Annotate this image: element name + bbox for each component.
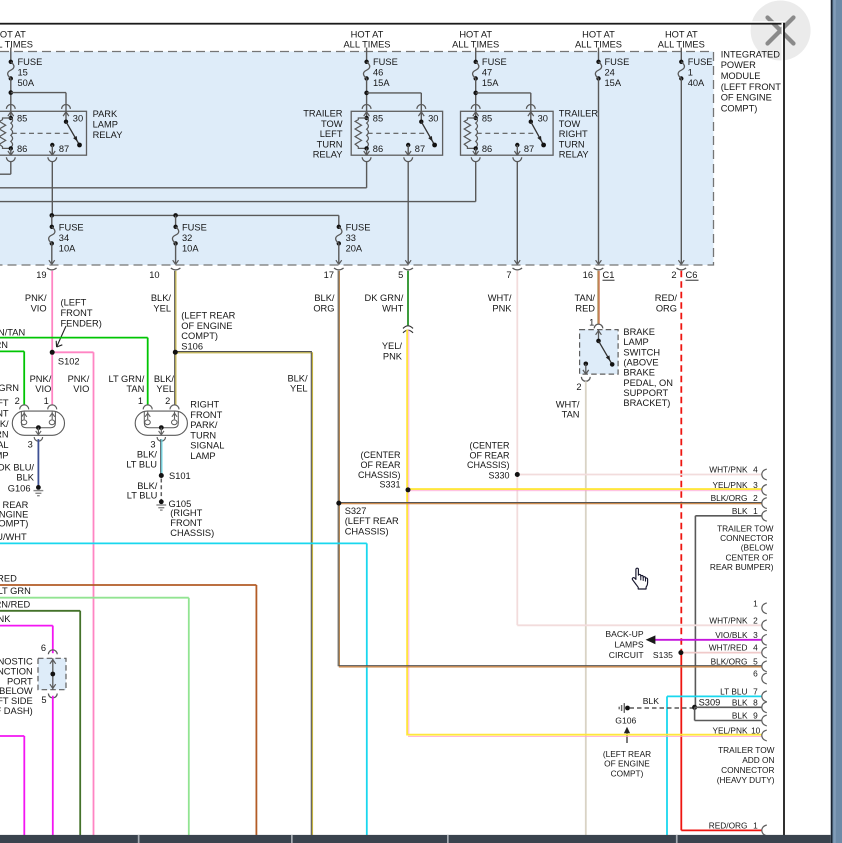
svg-text:PORT: PORT: [7, 676, 33, 686]
diagnostic junction port box: [38, 658, 66, 689]
IPM output pin at x=175.6: [173, 260, 176, 264]
brake lamp switch box: [580, 330, 619, 375]
wire fuse15 to park relay: [10, 79, 12, 105]
wire PNK to DJP pin6: [0, 625, 53, 627]
svg-text:1: 1: [44, 396, 49, 406]
wire YEL/PNK down: [406, 330, 408, 736]
svg-text:CHASSIS): CHASSIS): [345, 526, 389, 536]
svg-text:POWER: POWER: [721, 60, 756, 70]
svg-text:85: 85: [17, 114, 27, 124]
svg-text:OF ENGINE: OF ENGINE: [604, 759, 650, 769]
svg-text:YEL/PNK: YEL/PNK: [712, 726, 748, 736]
svg-text:FUSE: FUSE: [688, 57, 713, 67]
wire park relay 86 exit left: [10, 162, 12, 175]
svg-text:RED: RED: [575, 303, 595, 313]
svg-text:(LEFT REAR: (LEFT REAR: [181, 311, 235, 321]
svg-text:BLK/ORG: BLK/ORG: [711, 493, 748, 503]
svg-text:S331: S331: [379, 480, 400, 490]
ground G106 left: [36, 485, 41, 490]
IPM output pin at x=517.3: [514, 260, 517, 264]
wire BLK/YEL down from S106: [310, 352, 312, 836]
svg-text:FRONT: FRONT: [0, 408, 9, 418]
svg-text:BLK/ORG: BLK/ORG: [711, 656, 748, 666]
svg-text:46: 46: [373, 67, 383, 77]
svg-text:TURN: TURN: [559, 139, 585, 149]
svg-text:FUSE: FUSE: [373, 57, 398, 67]
splice S101: [159, 473, 164, 478]
svg-text:HOT AT: HOT AT: [0, 30, 26, 40]
wire YEL/PNK pin10 row: [408, 734, 762, 736]
svg-text:4: 4: [753, 643, 758, 653]
integrated power module shaded box: [0, 52, 714, 266]
fuse 15 50A: [10, 48, 12, 62]
svg-text:BLK/: BLK/: [154, 374, 175, 384]
svg-text:S102: S102: [58, 357, 80, 367]
svg-text:(BELOW: (BELOW: [741, 543, 774, 553]
svg-text:PNK/: PNK/: [68, 374, 90, 384]
svg-text:COMPT): COMPT): [611, 768, 644, 778]
svg-text:LEFT SIDE: LEFT SIDE: [0, 696, 33, 706]
svg-text:30: 30: [428, 114, 438, 124]
wire BLK pin1 trailer tow connector: [695, 515, 761, 517]
svg-text:TAN: TAN: [562, 410, 580, 420]
bus L1 to TT-left 86: [0, 187, 367, 189]
svg-text:TURN: TURN: [190, 430, 216, 440]
svg-text:LT GRN/: LT GRN/: [108, 374, 144, 384]
svg-text:32: 32: [182, 233, 192, 243]
svg-text:1: 1: [753, 820, 758, 830]
svg-text:(CENTER: (CENTER: [361, 450, 401, 460]
svg-text:YEL: YEL: [156, 384, 174, 394]
svg-text:86: 86: [373, 144, 383, 154]
svg-text:TRAILER: TRAILER: [303, 109, 343, 119]
svg-text:WHT/PNK: WHT/PNK: [709, 615, 748, 625]
svg-text:PNK: PNK: [492, 303, 512, 313]
svg-text:CHASSIS): CHASSIS): [467, 460, 510, 470]
svg-text:BRAKE: BRAKE: [623, 327, 655, 337]
svg-text:WHT: WHT: [382, 303, 403, 313]
page border right: [782, 23, 784, 835]
svg-text:BRACKET): BRACKET): [623, 398, 670, 408]
svg-text:15: 15: [18, 67, 28, 77]
svg-text:DK GRN/: DK GRN/: [365, 293, 404, 303]
svg-text:PARK/: PARK/: [0, 419, 9, 429]
svg-text:FUSE: FUSE: [182, 223, 207, 233]
splice S102: [52, 351, 93, 353]
svg-text:BLK/: BLK/: [151, 293, 172, 303]
wire BLK/LT BLU right lamp pin3: [160, 439, 162, 475]
svg-text:SUPPORT: SUPPORT: [623, 388, 668, 398]
svg-text:SIGNAL: SIGNAL: [0, 440, 9, 450]
svg-text:1: 1: [138, 396, 143, 406]
svg-text:3: 3: [150, 440, 155, 450]
svg-text:YEL: YEL: [290, 384, 308, 394]
RED/ORG pin1 bottom terminal: [762, 825, 767, 836]
svg-text:20A: 20A: [346, 243, 363, 253]
svg-text:19: 19: [36, 270, 46, 280]
svg-text:HOT AT: HOT AT: [665, 30, 698, 40]
right front park/turn signal lamp body: [135, 411, 187, 435]
svg-text:S135: S135: [653, 650, 673, 660]
svg-text:RED/ORG: RED/ORG: [709, 820, 748, 830]
svg-text:RED: RED: [0, 574, 17, 584]
svg-text:LT BLU: LT BLU: [720, 686, 747, 696]
wire WHT/RED pin4 row: [681, 652, 762, 654]
svg-text:FUSE: FUSE: [346, 223, 371, 233]
svg-text:S106: S106: [181, 341, 203, 351]
svg-text:(LEFT REAR: (LEFT REAR: [345, 516, 399, 526]
svg-text:8: 8: [753, 697, 758, 707]
svg-text:ALL TIMES: ALL TIMES: [0, 39, 33, 49]
svg-text:CIRCUIT: CIRCUIT: [609, 650, 645, 660]
svg-text:DK BLU/: DK BLU/: [0, 463, 34, 473]
ground G105: [159, 499, 164, 504]
fuse 24 15A: [598, 48, 600, 62]
svg-text:(LEFT FRONT: (LEFT FRONT: [721, 82, 782, 92]
svg-text:BLK: BLK: [732, 697, 748, 707]
svg-text:WHT/PNK: WHT/PNK: [709, 465, 748, 475]
page border top: [0, 21, 785, 23]
svg-text:CONNECTOR: CONNECTOR: [720, 533, 773, 543]
svg-text:BLK/: BLK/: [314, 293, 335, 303]
svg-text:7: 7: [753, 686, 758, 696]
wire BRN/RED horizontal: [0, 584, 256, 586]
svg-text:BLK: BLK: [16, 473, 34, 483]
svg-text:PNK: PNK: [383, 351, 403, 361]
svg-text:BLK/: BLK/: [137, 450, 158, 460]
fuse 34 10A: [50, 225, 54, 229]
wire LT GRN/TAN to right lamp pin1: [0, 337, 148, 339]
wire TT-right 87 down to pin7: [516, 162, 518, 264]
svg-text:86: 86: [482, 144, 492, 154]
wire fuse1 down to pin2: [680, 79, 682, 264]
gray X of close button: [768, 18, 794, 44]
wire 10 BLK/YEL: [174, 271, 176, 352]
DJP pin 5: [48, 694, 57, 698]
svg-text:BLK: BLK: [732, 711, 748, 721]
wire DK BLU/BLK left lamp pin3: [37, 439, 39, 487]
wire branch to park relay pin30: [11, 92, 66, 94]
svg-text:(RIGHT: (RIGHT: [170, 508, 202, 518]
svg-text:FUSE: FUSE: [59, 223, 84, 233]
svg-text:85: 85: [482, 114, 492, 124]
svg-text:BLK: BLK: [732, 506, 748, 516]
svg-text:YEL/PNK: YEL/PNK: [712, 480, 748, 490]
svg-text:G106: G106: [615, 715, 636, 725]
svg-text:TAN: TAN: [126, 384, 144, 394]
left front park/turn signal lamp body: [12, 411, 64, 435]
svg-text:(BELOW: (BELOW: [0, 686, 33, 696]
svg-text:RN/RED: RN/RED: [0, 599, 30, 609]
svg-text:87: 87: [59, 144, 69, 154]
svg-text:(CENTER: (CENTER: [470, 440, 510, 450]
svg-text:BLK: BLK: [643, 696, 660, 706]
fuse 1 40A: [680, 48, 682, 62]
svg-text:6: 6: [41, 643, 46, 653]
svg-text:VIO: VIO: [31, 303, 47, 313]
svg-text:LT GRN/TAN: LT GRN/TAN: [0, 328, 25, 338]
wire PNK bottom-left: [0, 735, 24, 737]
IPM dashed border: [0, 52, 714, 266]
svg-text:1: 1: [753, 598, 758, 608]
svg-text:TOW: TOW: [559, 119, 581, 129]
svg-text:2: 2: [753, 493, 758, 503]
svg-text:(HEAVY DUTY): (HEAVY DUTY): [717, 775, 775, 785]
svg-text:LT BLU: LT BLU: [127, 491, 158, 501]
brake switch blade: [599, 341, 613, 365]
svg-text:C6: C6: [686, 270, 698, 280]
svg-text:RELAY: RELAY: [559, 150, 589, 160]
svg-text:BLK/: BLK/: [137, 481, 158, 491]
svg-text:RIGHT: RIGHT: [190, 400, 219, 410]
IPM output pin at x=51.8: [49, 260, 52, 264]
svg-text:87: 87: [415, 144, 425, 154]
svg-text:YEL/: YEL/: [382, 341, 403, 351]
svg-text:16: 16: [583, 270, 593, 280]
svg-text:HOT AT: HOT AT: [351, 30, 384, 40]
wire WHT/PNK pin2 row: [517, 624, 762, 626]
svg-text:SWITCH: SWITCH: [623, 347, 660, 357]
svg-text:CENTER OF: CENTER OF: [726, 552, 774, 562]
svg-text:LAMP: LAMP: [93, 120, 118, 130]
IPM output pin at x=681.3: [678, 260, 681, 264]
svg-text:24: 24: [605, 67, 615, 77]
svg-text:COMPT): COMPT): [0, 519, 28, 529]
splice S330 WHT/PNK: [517, 474, 762, 476]
svg-text:33: 33: [346, 233, 356, 243]
svg-text:34: 34: [59, 233, 69, 243]
svg-text:PNK/: PNK/: [30, 374, 52, 384]
svg-text:(LEFT REAR: (LEFT REAR: [0, 500, 29, 510]
svg-text:15A: 15A: [605, 78, 622, 88]
svg-text:HOT AT: HOT AT: [582, 30, 615, 40]
svg-text:3: 3: [753, 480, 758, 490]
svg-text:TAN/: TAN/: [575, 293, 596, 303]
svg-text:RELAY: RELAY: [93, 130, 123, 140]
svg-text:2: 2: [15, 396, 20, 406]
svg-text:FRONT: FRONT: [61, 308, 93, 318]
svg-text:15A: 15A: [373, 78, 390, 88]
svg-text:PNK/: PNK/: [25, 293, 47, 303]
svg-text:5: 5: [753, 656, 758, 666]
wire 7 WHT/PNK: [516, 271, 518, 475]
wire TT-left 87 down to pin5: [407, 162, 409, 264]
svg-text:(LEFT: (LEFT: [0, 398, 9, 408]
wire 5 DK GRN/WHT: [407, 271, 409, 326]
svg-text:S327: S327: [345, 506, 367, 516]
IPM output pin at x=338.8: [336, 260, 339, 264]
IPM output pin at x=598.5: [596, 260, 599, 264]
splice S106: [175, 351, 312, 353]
wire park relay 87 down: [51, 162, 53, 216]
splice S327 BLK/ORG: [339, 502, 762, 504]
svg-text:(LEFT REAR: (LEFT REAR: [603, 749, 651, 759]
close button circle: [751, 1, 811, 61]
wire branch to TT-left pin30: [367, 92, 422, 94]
svg-text:CHASSIS): CHASSIS): [170, 528, 214, 538]
svg-text:1: 1: [753, 506, 758, 516]
dashed BLK/LT BLU to G105: [160, 479, 162, 500]
svg-text:10: 10: [149, 270, 159, 280]
svg-text:G106: G106: [8, 484, 31, 494]
svg-text:(ABOVE: (ABOVE: [623, 357, 658, 367]
svg-text:OF REAR: OF REAR: [469, 450, 510, 460]
svg-text:FENDER): FENDER): [61, 319, 102, 329]
relay K2 TRAILER TOW LEFT TURN RELAY: [351, 111, 442, 155]
svg-text:OF ENGINE: OF ENGINE: [721, 93, 772, 103]
svg-text:3: 3: [753, 630, 758, 640]
svg-text:FUSE: FUSE: [18, 57, 43, 67]
svg-text:U/WHT: U/WHT: [0, 532, 27, 542]
wire fuse47 to TT-right relay: [475, 79, 477, 105]
svg-text:MODULE: MODULE: [721, 71, 761, 81]
wire fuse24 down to pin16: [598, 79, 600, 264]
svg-text:WHT/: WHT/: [488, 293, 512, 303]
svg-text:WHT/: WHT/: [556, 400, 580, 410]
svg-text:VIO/BLK: VIO/BLK: [715, 630, 748, 640]
wire LT BLU pin7: [666, 696, 668, 836]
right scrollbar: [831, 0, 842, 843]
svg-text:RELAY: RELAY: [313, 150, 343, 160]
svg-text:6: 6: [753, 669, 758, 679]
wire PNK from DJP pin5 down: [52, 696, 54, 836]
svg-text:2: 2: [165, 396, 170, 406]
svg-text:87: 87: [524, 144, 534, 154]
fuse 47 15A: [475, 48, 477, 62]
wire LT GRN horizontal: [0, 597, 189, 599]
svg-text:5: 5: [398, 270, 403, 280]
svg-text:RIGHT: RIGHT: [559, 129, 588, 139]
trailer tow connector terminals 4..1: [762, 469, 767, 480]
svg-text:LAMP: LAMP: [623, 337, 648, 347]
svg-text:5: 5: [41, 695, 46, 705]
svg-text:LAMPS: LAMPS: [614, 640, 643, 650]
bottom scrollbar: [0, 835, 831, 843]
svg-text:S309: S309: [699, 697, 721, 707]
svg-text:FUSE: FUSE: [605, 57, 630, 67]
svg-text:PARK: PARK: [93, 109, 118, 119]
svg-text:4: 4: [753, 465, 758, 475]
svg-text:TRAILER: TRAILER: [559, 109, 599, 119]
trailer tow add-on connector terminals 1..10: [762, 603, 767, 614]
svg-text:BRAKE: BRAKE: [623, 368, 655, 378]
svg-text:SIGNAL: SIGNAL: [190, 441, 224, 451]
svg-text:OF REAR: OF REAR: [360, 460, 401, 470]
svg-text:DIAGNOSTIC: DIAGNOSTIC: [0, 657, 33, 667]
wire LT BLU/WHT horizontal: [0, 542, 367, 544]
splice S309: [692, 705, 697, 710]
svg-text:LT GRN: LT GRN: [0, 340, 8, 350]
wire 19 PNK/VIO: [51, 271, 53, 353]
svg-text:S101: S101: [169, 471, 191, 481]
svg-text:ORG: ORG: [656, 303, 677, 313]
fuse 32 10A: [173, 225, 177, 229]
svg-text:WHT/RED: WHT/RED: [709, 643, 748, 653]
svg-text:LEFT: LEFT: [320, 129, 343, 139]
svg-text:PARK/: PARK/: [190, 420, 218, 430]
svg-text:17: 17: [324, 270, 334, 280]
svg-text:VIO: VIO: [73, 384, 89, 394]
svg-text:LAMP: LAMP: [190, 451, 215, 461]
svg-text:LT GRN: LT GRN: [0, 383, 19, 393]
wire fuse46 to TT-left relay: [366, 79, 368, 105]
svg-text:FUSE: FUSE: [482, 57, 507, 67]
wire PNK/VIO branch down: [93, 352, 95, 836]
splice S135 on RED/ORG: [678, 650, 683, 655]
svg-text:CONNECTOR: CONNECTOR: [721, 765, 774, 775]
relay K3 TRAILER TOW RIGHT TURN RELAY: [461, 111, 554, 155]
arrow to G106: [626, 730, 628, 744]
wire LT GRN to left lamp pin2: [0, 350, 24, 352]
svg-text:1: 1: [688, 67, 693, 77]
svg-text:NK: NK: [0, 614, 11, 624]
svg-text:10A: 10A: [59, 243, 76, 253]
wire WHT/TAN down: [585, 381, 587, 836]
svg-text:BLK/: BLK/: [287, 374, 308, 384]
relay K1 PARK LAMP RELAY: [0, 111, 87, 155]
colour break symbol: [403, 326, 413, 329]
svg-text:YEL: YEL: [153, 303, 171, 313]
svg-text:HOT AT: HOT AT: [459, 30, 492, 40]
IPM output pin at x=408.2: [405, 260, 408, 264]
wire BLK pin9 row: [694, 707, 696, 720]
svg-text:FRONT: FRONT: [190, 410, 222, 420]
wire GRN/RED horizontal: [0, 610, 80, 612]
svg-text:LT GRN: LT GRN: [0, 586, 31, 596]
svg-text:85: 85: [373, 114, 383, 124]
svg-text:30: 30: [538, 114, 548, 124]
svg-text:40A: 40A: [688, 78, 705, 88]
svg-text:ORG: ORG: [313, 303, 334, 313]
svg-text:VIO: VIO: [35, 384, 51, 394]
svg-text:OF ENGINE: OF ENGINE: [181, 321, 232, 331]
wire 2 RED/ORG dashed: [680, 271, 682, 653]
svg-text:10A: 10A: [182, 243, 199, 253]
wire BLK pin8 row: [695, 706, 762, 708]
fuse 33 20A: [337, 225, 341, 229]
svg-text:TRAILER TOW: TRAILER TOW: [717, 524, 774, 534]
svg-text:BACK-UP: BACK-UP: [605, 629, 643, 639]
svg-text:2: 2: [753, 615, 758, 625]
wire 17 BLK/ORG: [337, 271, 339, 503]
svg-text:2: 2: [671, 270, 676, 280]
svg-text:1: 1: [589, 317, 594, 327]
svg-text:COMPT): COMPT): [181, 331, 218, 341]
svg-text:3: 3: [28, 440, 33, 450]
svg-text:PEDAL, ON: PEDAL, ON: [623, 378, 673, 388]
wire VIO/BLK back-up lamps: [654, 639, 762, 641]
svg-text:S330: S330: [488, 470, 509, 480]
svg-text:TOW: TOW: [321, 119, 343, 129]
svg-text:LAMP: LAMP: [0, 450, 9, 460]
svg-text:TURN: TURN: [0, 429, 9, 439]
svg-text:JUNCTION: JUNCTION: [0, 666, 33, 676]
wire BLK/ORG pin5 row: [339, 665, 762, 667]
ground G106 right with dashed BLK: [625, 706, 630, 711]
DJP internal: [52, 658, 54, 689]
svg-text:ADD ON: ADD ON: [742, 755, 774, 765]
svg-text:CHASSIS): CHASSIS): [358, 470, 401, 480]
svg-text:2: 2: [576, 382, 581, 392]
svg-text:FRONT: FRONT: [170, 518, 202, 528]
bus L2 to TT-right 86: [0, 201, 476, 203]
svg-text:(LEFT: (LEFT: [61, 298, 87, 308]
svg-text:OF DASH): OF DASH): [0, 706, 33, 716]
svg-text:REAR BUMPER): REAR BUMPER): [710, 562, 774, 572]
wire RED/ORG solid below S135: [680, 653, 682, 831]
svg-text:TRAILER TOW: TRAILER TOW: [718, 745, 775, 755]
wire branch to TT-right pin30: [476, 92, 531, 94]
